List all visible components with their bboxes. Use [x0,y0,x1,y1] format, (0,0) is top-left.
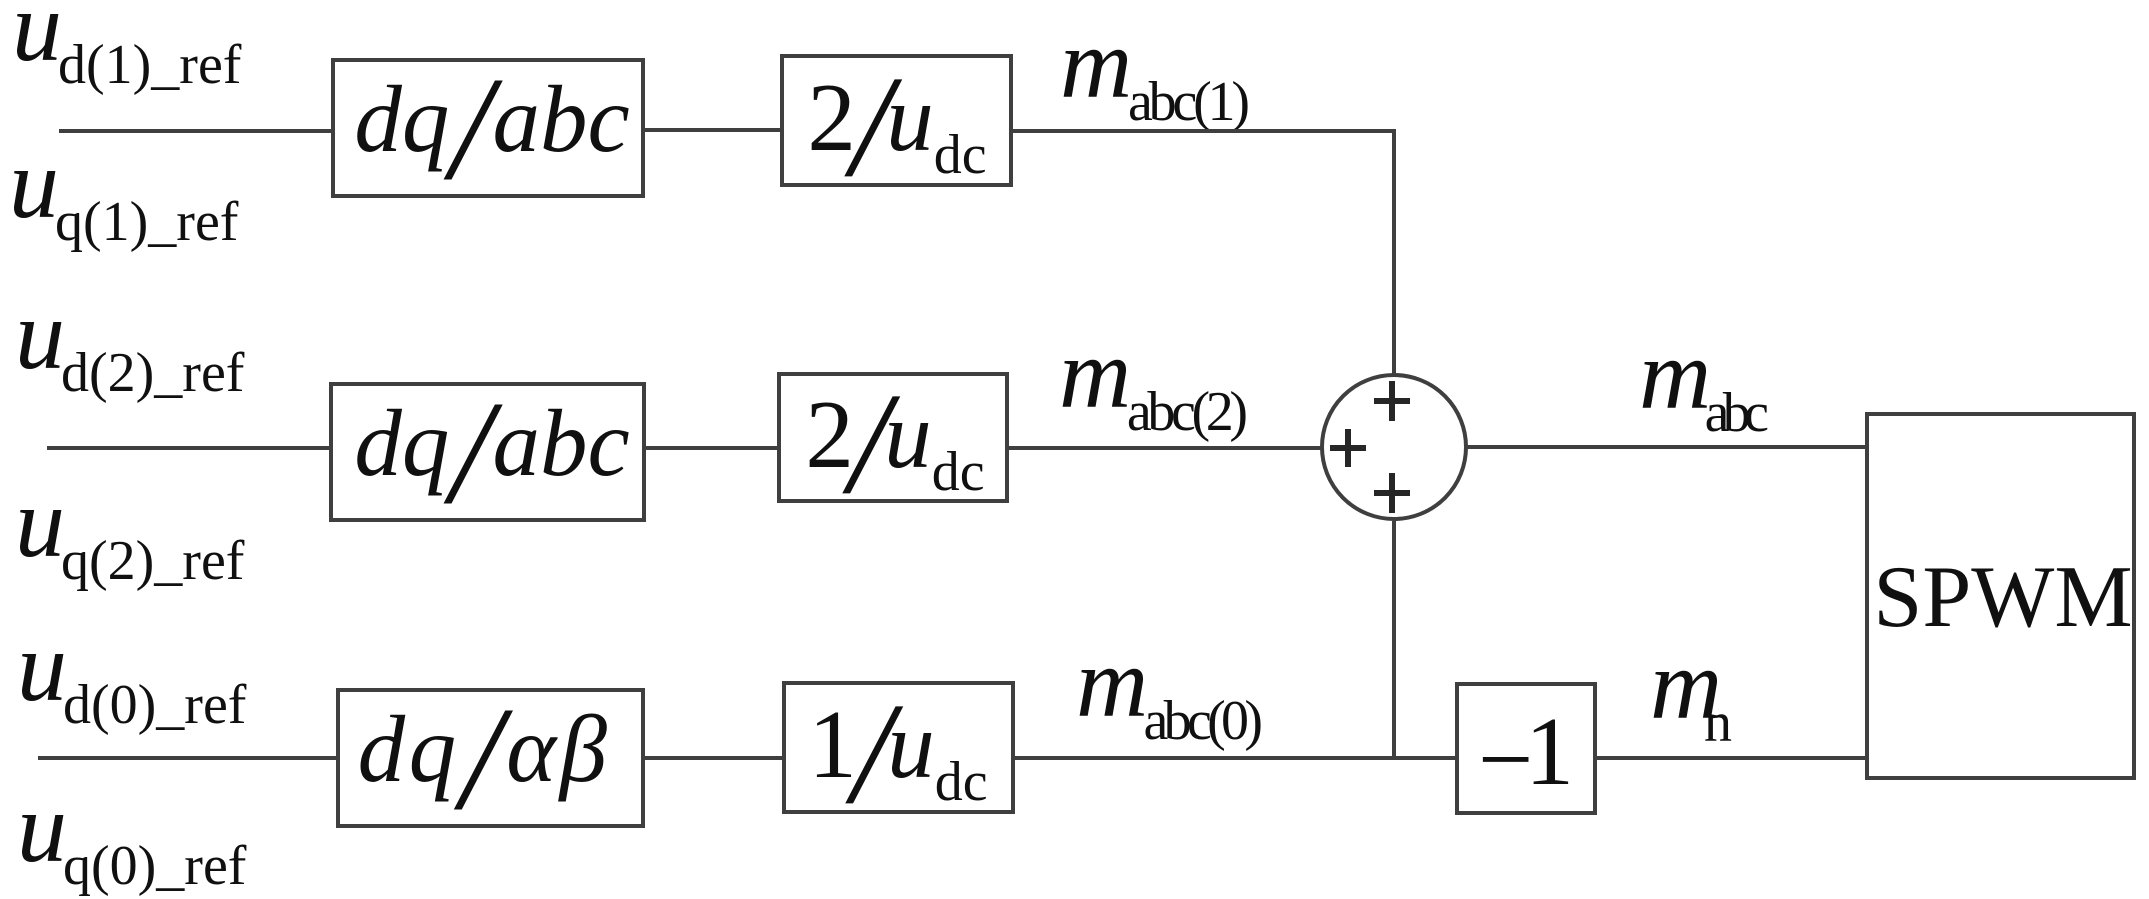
block U1 dq/abc (positive sequence) [333,60,643,196]
svg-text:mabc(1): mabc(1) [1060,8,1250,133]
wire junction node to summing junction bottom [1392,521,1396,760]
wire summing junction to SPWM [1466,445,1869,449]
wire 1/udc to -1 block (through junction) [1013,756,1459,760]
block G1 2/udc row1 [782,56,1011,185]
wire 2/udc row2 to summing junction [1007,446,1322,450]
svg-text:ud(0)_ref: ud(0)_ref [17,611,247,736]
wire dq/abc to 2/udc row2 [644,446,781,450]
svg-text:uq(0)_ref: uq(0)_ref [17,772,247,897]
svg-text:ud(2)_ref: ud(2)_ref [15,279,245,404]
wire -1 block to SPWM [1595,756,1869,760]
svg-text:mabc: mabc [1639,319,1769,444]
block G3 1/udc [784,683,1013,812]
wire dq/alphabeta to 1/udc [643,756,784,760]
block G4 gain -1 [1457,684,1595,813]
svg-text:uq(2)_ref: uq(2)_ref [15,467,245,592]
block U4 SPWM modulator [1867,414,2134,778]
block U2 dq/abc (negative sequence) [331,384,644,520]
plus sign bottom input [1374,473,1410,513]
wire m_abc(1) to summing junction (corner) [1011,129,1394,375]
summing junction S1 [1322,375,1466,519]
svg-text:mabc(2): mabc(2) [1059,318,1248,443]
wire row1 input to dq/abc block [59,129,333,133]
block G2 2/udc row2 [779,374,1007,501]
block U3 dq/alphabeta (zero sequence) [338,690,643,826]
wire row3 input to dq/alphabeta block [38,756,340,760]
plus sign top input [1374,381,1410,421]
svg-text:ud(1)_ref: ud(1)_ref [12,0,242,96]
wire row2 input to dq/abc block [47,446,333,450]
plus sign left input [1330,429,1366,467]
svg-text:uq(1)_ref: uq(1)_ref [9,128,239,253]
svg-text:mn: mn [1650,629,1732,754]
svg-text:mabc(0): mabc(0) [1076,627,1263,752]
wire dq/abc to 2/udc row1 [643,128,782,132]
svg-text:SPWM: SPWM [1873,549,2132,646]
svg-text:−1: −1 [1478,698,1574,814]
